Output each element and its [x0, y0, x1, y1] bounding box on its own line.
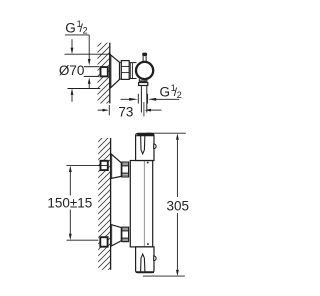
svg-text:Ø70: Ø70 [59, 63, 85, 78]
union nut 1 [122, 162, 129, 177]
escutcheon 1 [111, 154, 122, 179]
svg-text:G: G [160, 84, 171, 99]
inlet stub pipe [84, 67, 99, 77]
extension line (flange top, Ø70) [65, 53, 111, 55]
dimension 150±15 [47, 166, 92, 241]
svg-text:305: 305 [167, 198, 190, 213]
extension line (flange bottom, Ø70) [68, 88, 101, 90]
top knob (temperature handle) [136, 133, 157, 160]
union nut (side view) [120, 61, 130, 80]
wall (hatched, side view) [98, 43, 110, 104]
svg-text:73: 73 [118, 105, 133, 120]
bottom knob (volume handle) [136, 247, 157, 273]
dimension Ø70 [59, 39, 85, 102]
outlet collar [139, 80, 148, 85]
outlet pipe [141, 86, 146, 116]
union nut 2 [122, 227, 129, 241]
extension line 150 top [67, 165, 108, 167]
dimension G1/2 (outlet thread) [121, 83, 182, 104]
svg-text:G: G [65, 20, 76, 35]
svg-text:150±15: 150±15 [47, 195, 92, 210]
svg-text:2: 2 [177, 90, 182, 100]
valve body circle [136, 62, 153, 79]
svg-text:2: 2 [83, 26, 88, 36]
escutcheon 2 [111, 224, 122, 246]
wall fitting 2 (bottom) [100, 237, 107, 247]
stem and cap on top of valve [142, 53, 147, 62]
outlet neck below valve [139, 79, 147, 81]
connector cylinder between nut and valve body [129, 63, 136, 79]
dimension 73 [98, 105, 162, 120]
wall fitting 1 (top) [101, 161, 108, 170]
indicator dot bottom [147, 243, 149, 245]
thermostat body [130, 161, 152, 247]
indicator dot top [147, 162, 149, 164]
escutcheon cone (side view) [110, 54, 120, 88]
wall union fitting (side view) [101, 67, 108, 76]
wall (hatched, front view) [98, 138, 110, 270]
extension line 150 bottom [67, 239, 99, 241]
label G1/2 (wall inlet) [65, 19, 91, 89]
dimension 305 [143, 133, 189, 276]
